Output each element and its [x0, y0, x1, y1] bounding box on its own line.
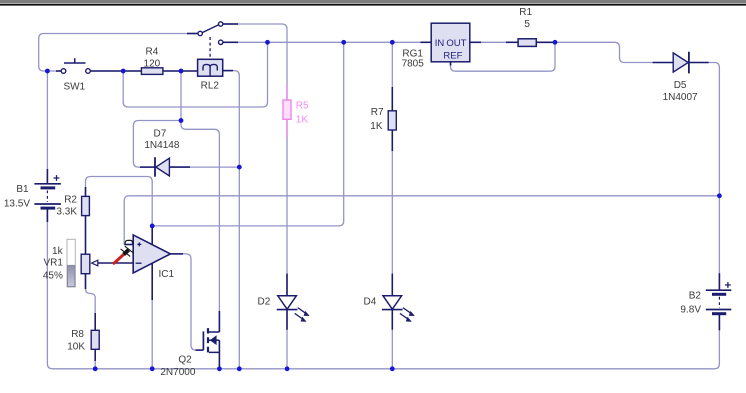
- wire rail SW1 to R4 to RL2: [90, 70, 197, 72]
- svg-text:VR1: VR1: [43, 258, 63, 269]
- node rail-R8: [93, 366, 98, 371]
- svg-text:B1: B1: [16, 184, 29, 195]
- dark lead B1 bottom: [46, 208, 48, 222]
- svg-text:45%: 45%: [43, 270, 63, 281]
- LED D2: [277, 296, 310, 322]
- pink selected lead R5 top stub: [286, 85, 288, 100]
- dark lead D7 cathode: [140, 166, 155, 168]
- dark lead D4 top: [391, 274, 393, 296]
- dark lead R1 left: [506, 41, 518, 43]
- dark lead D5 cathode: [689, 62, 709, 64]
- dark lead contact2 stub: [223, 41, 238, 43]
- resistor R5 (selected pink): [283, 100, 291, 119]
- node rail-D7net: [179, 69, 184, 74]
- resistor R8: [91, 330, 99, 349]
- svg-text:10K: 10K: [67, 342, 85, 353]
- node B2 positive: [717, 193, 722, 198]
- svg-text:D7: D7: [154, 128, 167, 139]
- dark lead RG1 IN: [421, 41, 432, 43]
- node rail-D2: [285, 366, 290, 371]
- svg-text:120: 120: [144, 59, 161, 70]
- svg-text:5: 5: [524, 19, 530, 30]
- resistor R2: [82, 196, 90, 215]
- node rail-D4: [390, 366, 395, 371]
- node rail-opamp V-: [150, 366, 155, 371]
- svg-text:SW1: SW1: [63, 82, 85, 93]
- resistor R4: [141, 68, 163, 75]
- wire VR1 bottom jog to R8: [86, 274, 96, 331]
- dark lead SW1 left: [56, 70, 61, 72]
- regulator RG1 7805 box: [431, 23, 470, 62]
- node rail-B1: [45, 69, 50, 74]
- wire D5 cathode to right vertical down to B2: [689, 63, 720, 291]
- dark lead RG1 REF: [450, 62, 452, 66]
- dark lead Q2 gate stub: [196, 349, 204, 351]
- dark lead D2 bottom: [286, 310, 288, 330]
- wire rail dot down to D7 node: [180, 71, 182, 121]
- potentiometer VR1 body: [81, 254, 90, 274]
- wire R2 top loop to V+ node: [86, 177, 153, 226]
- diode D5 1N4007: [673, 52, 689, 74]
- dark lead relay pole stub: [187, 33, 198, 35]
- relay switch pole and contacts: [198, 22, 223, 45]
- node D7 anode junction: [237, 165, 242, 170]
- relay coil RL2: [198, 59, 223, 76]
- node contact2-R7: [390, 40, 395, 45]
- wire op-amp output down to Q2 gate: [170, 254, 203, 350]
- dark lead R7 bottom: [391, 130, 393, 151]
- dark lead B2 bottom: [718, 314, 720, 331]
- wire R7 D4 vertical: [391, 42, 393, 369]
- svg-text:IN: IN: [435, 38, 445, 49]
- node R1 output: [553, 40, 558, 45]
- svg-text:REF: REF: [443, 50, 462, 61]
- svg-text:R8: R8: [71, 329, 84, 340]
- svg-text:9.8V: 9.8V: [680, 304, 701, 315]
- node contact2-bypass: [265, 40, 270, 45]
- dark lead R2 bottom to VR1 top: [85, 216, 87, 255]
- dark lead R2 top: [85, 187, 87, 196]
- transistor Q2 2N7000: [203, 328, 219, 352]
- node rail-bypass: [121, 69, 126, 74]
- cursor curved arrow annotation: [125, 240, 132, 244]
- wire op-amp V- pin down to bottom rail: [151, 263, 153, 369]
- relay actuation dashed link: [209, 37, 211, 58]
- wire relay contact1 right then down to R5: [223, 24, 287, 100]
- svg-text:1K: 1K: [370, 121, 383, 132]
- dark lead R7 top: [391, 87, 393, 111]
- svg-text:Q2: Q2: [178, 354, 192, 365]
- wire R8 bottom to rail: [94, 349, 96, 369]
- svg-text:R5: R5: [296, 101, 309, 112]
- potentiometer VR1 slider indicator: [67, 239, 75, 287]
- wire relay pole to top-left corner and down to SW1 rail: [39, 34, 198, 72]
- battery B1: [34, 175, 61, 208]
- wire RG1 OUT to R1: [470, 41, 518, 43]
- dark lead R8 top: [94, 313, 96, 330]
- svg-text:13.5V: 13.5V: [4, 198, 30, 209]
- dark lead B1 top: [46, 169, 48, 184]
- dark lead RG1 OUT: [470, 41, 481, 43]
- svg-text:RL2: RL2: [201, 81, 220, 92]
- wire D7 node jog down to Q2 drain: [181, 121, 219, 333]
- wire op-amp plus input up and right to B2 junction: [124, 196, 719, 245]
- svg-text:2N7000: 2N7000: [160, 367, 195, 378]
- dark lead R1 right: [536, 41, 553, 43]
- dark lead contact1 stub: [223, 23, 238, 25]
- LED D4: [382, 296, 415, 322]
- top window border bar: [0, 0, 746, 3]
- wire bottom rail from B1 to B2: [47, 208, 719, 369]
- svg-text:D2: D2: [258, 297, 271, 308]
- svg-text:OUT: OUT: [446, 38, 466, 49]
- wire op-amp V+ node right and up to contact2 rail: [152, 42, 344, 226]
- svg-text:1k: 1k: [52, 246, 64, 257]
- diode D7 1N4148: [155, 157, 169, 177]
- resistor R7: [388, 111, 396, 130]
- dark lead D5 anode: [653, 62, 673, 64]
- dark lead D7 anode: [169, 166, 190, 168]
- svg-text:R4: R4: [146, 47, 159, 58]
- node rail-RL2: [237, 366, 242, 371]
- wire D7 node left down to D7 cathode: [133, 121, 181, 168]
- resistor R1: [518, 39, 536, 47]
- wire R1 to corner jog to D5: [536, 42, 673, 62]
- wire RG1 REF loop to R1 output dot: [451, 42, 556, 71]
- node D7net T: [179, 118, 184, 123]
- wire B1 positive lead from rail: [46, 71, 48, 184]
- dark lead op-amp output stub: [170, 253, 183, 255]
- dark lead op-amp V+ pin: [151, 226, 153, 245]
- dark wire VR1 wiper to op-amp minus input: [98, 262, 134, 264]
- wire RL2 right terminal down to bottom rail: [223, 71, 240, 369]
- svg-text:1N4148: 1N4148: [144, 140, 179, 151]
- dark lead D4 bottom: [391, 310, 393, 330]
- svg-text:7805: 7805: [402, 59, 425, 70]
- dark lead D2 top: [286, 274, 288, 296]
- dark lead R4 right to RL2: [163, 70, 198, 72]
- node op-amp V+: [150, 224, 155, 229]
- svg-text:IC1: IC1: [159, 269, 175, 280]
- dark wire op-amp plus input: [124, 244, 133, 246]
- wire relay contact2 rail to RG1 IN: [223, 41, 431, 43]
- dark lead B2 top: [718, 273, 720, 290]
- op-amp IC1: [133, 235, 170, 273]
- switch SW1: [61, 58, 90, 73]
- svg-text:R7: R7: [371, 107, 384, 118]
- svg-text:B2: B2: [689, 290, 702, 301]
- svg-text:D4: D4: [364, 297, 377, 308]
- svg-text:3.3K: 3.3K: [56, 207, 77, 218]
- dark lead op-amp V- pin: [151, 263, 153, 301]
- cursor probe pointer: [114, 246, 134, 263]
- svg-text:D5: D5: [674, 80, 687, 91]
- dark lead RL2 right stub: [223, 70, 233, 72]
- node rail-Q2 source: [217, 366, 222, 371]
- svg-text:R1: R1: [519, 7, 532, 18]
- dark lead Q2 source to rail: [218, 340, 220, 369]
- dark lead Q2 drain vertical: [218, 311, 220, 332]
- battery B2: [706, 282, 732, 314]
- wire D7 anode to RL2 vertical: [169, 166, 239, 168]
- svg-text:1K: 1K: [296, 114, 309, 125]
- node contact2-Vplus riser: [341, 40, 346, 45]
- potentiometer VR1 wiper arrow: [92, 260, 98, 266]
- svg-text:1N4007: 1N4007: [663, 92, 698, 103]
- wire R5 D2 vertical: [286, 119, 288, 368]
- pink selected lead R5 bottom stub: [286, 119, 288, 137]
- svg-text:R2: R2: [64, 194, 77, 205]
- wire bypass loop from rail dot down and up to contact2 rail: [123, 42, 267, 107]
- dark lead VR1 bottom: [85, 274, 87, 289]
- dark lead R8 bottom: [94, 349, 96, 361]
- dark lead SW1 right to R4: [90, 70, 141, 72]
